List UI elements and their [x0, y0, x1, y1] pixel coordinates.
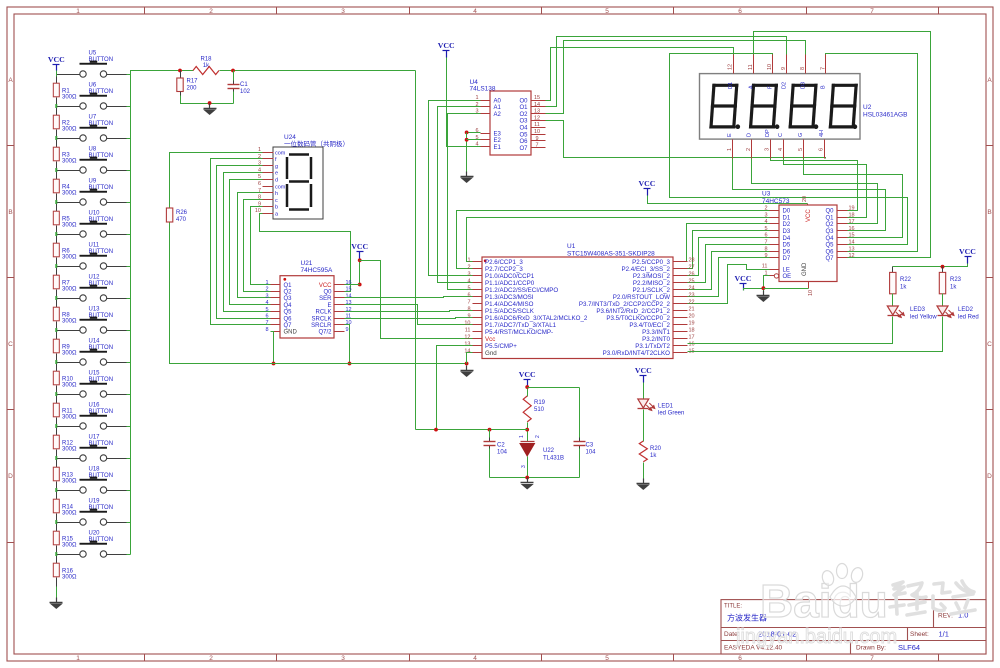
svg-text:4: 4: [764, 219, 767, 225]
button U12: [57, 275, 127, 301]
svg-text:DP: DP: [765, 129, 771, 137]
svg-text:1: 1: [467, 257, 470, 263]
pin 11 U21 SRCLK: [311, 314, 351, 323]
svg-text:19: 19: [849, 206, 855, 212]
svg-text:4H: 4H: [819, 130, 825, 137]
wire U1 pin26 to U3: [688, 238, 770, 276]
button U11: [57, 243, 127, 269]
svg-text:2: 2: [535, 435, 541, 438]
svg-text:19: 19: [689, 320, 695, 326]
button U6: [57, 83, 127, 110]
svg-text:h: h: [275, 191, 278, 197]
svg-text:U7: U7: [89, 115, 97, 121]
pin 20 U1 P3.5: [606, 313, 694, 322]
svg-text:Q3: Q3: [284, 296, 293, 302]
svg-text:Q5: Q5: [284, 310, 293, 316]
button U20: [57, 531, 127, 558]
resistor R11 300: [53, 395, 59, 427]
svg-text:104: 104: [497, 450, 508, 456]
ground main rail: [460, 366, 473, 378]
resistor R18 1k zigzag: [193, 57, 219, 75]
pin 6 U24 com: [258, 181, 286, 190]
button U14: [57, 339, 127, 365]
svg-text:6: 6: [467, 292, 470, 298]
svg-text:4: 4: [778, 148, 784, 151]
svg-text:D5: D5: [783, 243, 791, 249]
power flag VCC U3 OE: [735, 274, 752, 291]
wire U3 GND pin: [764, 288, 809, 290]
label R4: [62, 185, 77, 197]
pin 12 U3 Q7: [825, 253, 854, 262]
svg-text:LED2: LED2: [958, 307, 974, 313]
wire feedback to TL431: [416, 429, 528, 431]
wire VCC to U3 pin20: [648, 196, 808, 204]
wire: [127, 330, 131, 332]
pin 24 U1 P2.1: [633, 285, 695, 294]
svg-text:P5.5/CMP+: P5.5/CMP+: [485, 343, 517, 350]
svg-text:200: 200: [187, 86, 198, 92]
svg-text:D6: D6: [783, 249, 791, 255]
label R10: [62, 377, 77, 389]
label LED2: [958, 307, 979, 321]
resistor R23 1k: [939, 267, 961, 294]
pin 2 U4 A1: [475, 102, 501, 111]
wire U1 pin2 to D0: [457, 211, 770, 269]
svg-text:P3.1/TxD/T2: P3.1/TxD/T2: [635, 343, 670, 350]
svg-text:3: 3: [341, 8, 345, 15]
svg-text:Q2: Q2: [284, 290, 293, 296]
pin 2 U2 D: [746, 133, 752, 159]
svg-text:5: 5: [605, 655, 609, 662]
svg-text:A: A: [748, 85, 754, 89]
svg-text:3: 3: [521, 465, 527, 468]
svg-text:U10: U10: [89, 211, 101, 217]
svg-text:VCC: VCC: [519, 370, 536, 379]
svg-text:3: 3: [467, 271, 470, 277]
svg-text:P1.3/ADC3/MOSI: P1.3/ADC3/MOSI: [485, 294, 534, 301]
svg-text:4: 4: [467, 278, 470, 284]
pin 11 U2 A: [748, 55, 754, 90]
pin 7 U3 D5: [764, 240, 790, 249]
svg-text:470: 470: [176, 217, 187, 223]
svg-text:Gnd: Gnd: [485, 350, 497, 357]
junction C1 top: [231, 69, 235, 73]
wire U1 pin27 to U3: [688, 231, 770, 269]
svg-text:U19: U19: [89, 499, 101, 505]
svg-text:14: 14: [464, 348, 470, 354]
pin 6 U4 E3: [475, 128, 501, 137]
button U7: [57, 115, 127, 142]
pin 15 U21 Q0: [323, 287, 351, 296]
wire U21 GND to rail: [271, 332, 274, 364]
svg-text:9: 9: [781, 67, 787, 70]
svg-text:E: E: [327, 303, 331, 309]
svg-text:300Ω: 300Ω: [62, 351, 77, 357]
button U9: [57, 179, 127, 206]
wire SER to U1 P1.3: [345, 297, 473, 298]
svg-text:1: 1: [727, 148, 733, 151]
svg-text:P1.7/ADC7/TxD_3/XTAL1: P1.7/ADC7/TxD_3/XTAL1: [485, 322, 557, 329]
pin 2 U1 P2.7: [467, 264, 523, 273]
button U13: [57, 307, 127, 333]
resistor R6 300: [53, 235, 59, 267]
svg-text:25: 25: [689, 278, 695, 284]
svg-text:Q7/2: Q7/2: [318, 330, 332, 336]
pin 6 U3 D4: [764, 233, 790, 242]
svg-text:6: 6: [819, 148, 825, 151]
svg-text:B: B: [987, 209, 991, 216]
wire: [127, 234, 131, 236]
junction C2: [488, 428, 492, 432]
svg-text:E2: E2: [494, 138, 502, 144]
svg-text:GND: GND: [802, 262, 808, 276]
svg-text:E1: E1: [494, 145, 502, 151]
svg-text:Q1: Q1: [284, 283, 293, 289]
pin 3 U1 P1.0: [467, 271, 534, 280]
svg-text:D2: D2: [781, 82, 787, 89]
svg-text:13: 13: [346, 300, 352, 306]
svg-text:R23: R23: [950, 277, 962, 283]
svg-text:e: e: [275, 171, 278, 177]
pin 7 U4 O7: [519, 143, 545, 152]
wire: [127, 554, 131, 556]
pin 10 U4 O5: [519, 129, 545, 138]
wire enable chain to gnd: [466, 133, 468, 173]
pin 15 U3 Q4: [825, 233, 854, 242]
pin 4 U4 E1: [475, 142, 501, 151]
svg-text:2: 2: [265, 287, 268, 293]
pin 3 U3 D1: [764, 212, 790, 221]
svg-text:300Ω: 300Ω: [62, 319, 77, 325]
wire RCLK to U1 P1.5: [345, 311, 473, 312]
svg-text:A1: A1: [494, 105, 502, 111]
svg-text:6: 6: [738, 655, 742, 662]
svg-text:G: G: [798, 133, 804, 137]
svg-text:VCC: VCC: [735, 274, 752, 283]
wire U1 pin22 to LE: [688, 265, 770, 304]
wire VCC OE: [744, 289, 764, 291]
svg-text:12: 12: [849, 253, 855, 259]
wire U22 to rail: [527, 457, 529, 478]
svg-text:4: 4: [265, 300, 268, 306]
svg-text:28: 28: [689, 257, 695, 263]
wire E to U1 P1.7: [345, 305, 473, 325]
svg-text:U17: U17: [89, 435, 101, 441]
svg-text:D4: D4: [783, 236, 791, 242]
svg-text:P2.2/MISO_2: P2.2/MISO_2: [633, 280, 671, 287]
button U18: [57, 467, 127, 493]
svg-text:8: 8: [800, 67, 806, 70]
svg-text:5: 5: [605, 8, 609, 15]
svg-text:U8: U8: [89, 147, 97, 153]
svg-text:B: B: [8, 209, 12, 216]
power flag VCC LED1: [635, 366, 652, 383]
svg-text:18: 18: [849, 212, 855, 218]
latch U3 74HC573: [762, 191, 837, 282]
power flag VCC U21: [351, 242, 368, 259]
svg-text:U13: U13: [89, 307, 101, 313]
svg-text:13: 13: [534, 109, 540, 115]
svg-text:300Ω: 300Ω: [62, 95, 77, 101]
svg-text:8: 8: [265, 327, 268, 333]
pin 3 U2 DP: [765, 129, 771, 158]
svg-text:8: 8: [467, 306, 470, 312]
svg-text:C: C: [987, 341, 992, 348]
pin 4 U21 Q4: [265, 300, 292, 309]
svg-text:Q0: Q0: [825, 209, 834, 215]
pin 25 U1 P2.2: [633, 278, 695, 287]
pin 1 U4 A0: [475, 95, 501, 104]
wire R16 to ground: [56, 587, 58, 598]
pin 18 U1 P3.3: [642, 327, 694, 336]
svg-text:VCC: VCC: [351, 242, 368, 251]
svg-text:VCC: VCC: [438, 41, 455, 50]
svg-text:15: 15: [346, 287, 352, 293]
label R1: [62, 89, 77, 101]
svg-text:U5: U5: [89, 51, 97, 57]
ground R17/C1: [203, 104, 216, 116]
button U15: [57, 371, 127, 397]
wire LED1 to R20: [643, 410, 645, 442]
svg-text:300Ω: 300Ω: [62, 511, 77, 517]
wire: [127, 490, 131, 492]
pin 8 U2 D3: [800, 55, 806, 90]
label C2: [497, 443, 508, 456]
pin 5 U24 d: [258, 174, 278, 183]
svg-text:O5: O5: [519, 132, 528, 138]
svg-text:R19: R19: [534, 400, 546, 406]
pin 4 U1 P1.1: [467, 278, 534, 287]
svg-text:U18: U18: [89, 467, 101, 473]
label R16: [62, 569, 77, 581]
svg-text:1k: 1k: [650, 453, 657, 459]
svg-text:jingyan.baidu.com: jingyan.baidu.com: [735, 626, 897, 648]
Baidu watermark: [735, 564, 975, 649]
resistor R8 300: [53, 299, 59, 331]
svg-text:15: 15: [534, 95, 540, 101]
svg-text:D3: D3: [800, 82, 806, 89]
junction C3 branch: [525, 385, 529, 389]
svg-text:P2.5/CCP0_3: P2.5/CCP0_3: [632, 259, 670, 266]
svg-text:B: B: [821, 85, 827, 89]
wire: [127, 458, 131, 460]
svg-text:7: 7: [265, 320, 268, 326]
svg-text:R22: R22: [900, 277, 912, 283]
svg-text:d: d: [275, 178, 278, 184]
svg-text:GND: GND: [284, 330, 298, 336]
shunt reference U22 TL431B: [519, 435, 564, 468]
pin 1 U24 com: [258, 147, 286, 156]
wire: [127, 202, 131, 204]
svg-text:g: g: [275, 164, 278, 170]
svg-text:C: C: [778, 133, 784, 137]
resistor R4 300: [53, 171, 59, 203]
wire U1 pin23 to U3: [688, 258, 770, 297]
svg-text:P1.2/ADC2/SS/ECI/CMPO: P1.2/ADC2/SS/ECI/CMPO: [485, 287, 558, 294]
pin 13 U4 O2: [519, 109, 545, 118]
svg-text:E3: E3: [494, 131, 502, 137]
wire segment C: [784, 159, 867, 218]
wire keypad feedback vertical: [415, 71, 417, 430]
wire R22 to LED3: [892, 294, 894, 307]
svg-text:1: 1: [76, 655, 80, 662]
svg-text:led Yellow: led Yellow: [910, 315, 937, 321]
svg-text:P1.5/ADC5/SCLK: P1.5/ADC5/SCLK: [485, 308, 535, 315]
button U10: [57, 211, 127, 238]
wire: [127, 74, 131, 76]
wire U1 P5.5 to feedback: [437, 346, 473, 430]
svg-text:16: 16: [689, 341, 695, 347]
pin 1 U2 E: [727, 133, 733, 159]
svg-text:Q7: Q7: [284, 323, 293, 329]
svg-text:14: 14: [849, 240, 855, 246]
ground U3: [757, 291, 770, 303]
svg-text:VCC: VCC: [319, 283, 332, 289]
junction gnd rail: [272, 362, 276, 366]
wire segment B: [826, 54, 918, 252]
wire VCC to R22 R23: [893, 264, 968, 267]
wire segment DP: [771, 159, 858, 211]
resistor R7 300: [53, 267, 59, 299]
junction ground tap: [208, 101, 212, 105]
svg-text:102: 102: [240, 89, 251, 95]
wire U24 pin3 to U21: [217, 166, 271, 319]
pin 9 U2 D2: [781, 55, 787, 90]
pin 10 U3 GND: [802, 262, 814, 296]
svg-text:U14: U14: [89, 339, 101, 345]
wire U21 pin16: [345, 284, 360, 286]
resistor R1 300: [53, 75, 59, 107]
svg-text:12: 12: [534, 115, 540, 121]
svg-text:D: D: [8, 473, 13, 480]
resistor R5 300: [53, 203, 59, 235]
wire: [127, 266, 131, 268]
power flag VCC LEDs: [959, 247, 976, 264]
label R12: [62, 441, 77, 453]
wire VCC to U21 pin16: [359, 259, 361, 285]
svg-text:18: 18: [689, 327, 695, 333]
svg-text:300Ω: 300Ω: [62, 479, 77, 485]
resistor R16 300: [53, 555, 59, 587]
wire E3: [467, 132, 481, 134]
pin 2 U3 D0: [764, 206, 790, 215]
pin 17 U1 P3.2: [642, 334, 694, 343]
svg-text:VCC: VCC: [635, 366, 652, 375]
label C1: [240, 82, 251, 95]
svg-text:Q2: Q2: [825, 222, 834, 228]
label R5: [62, 217, 77, 229]
pin 11 U3 LE: [762, 264, 790, 274]
pin 8 U1 P1.5: [467, 306, 534, 315]
svg-text:11: 11: [465, 327, 471, 333]
wire R20 to ground: [643, 463, 645, 479]
svg-text:com: com: [275, 150, 286, 156]
pin 5 U4 E2: [475, 135, 501, 144]
svg-text:3: 3: [341, 655, 345, 662]
pin 7 U21 Q7: [265, 320, 292, 329]
wire: [127, 106, 131, 108]
ground U4 enable: [460, 172, 473, 184]
pin 1 U3 OE: [764, 270, 791, 280]
svg-text:P2.7/CCP2_3: P2.7/CCP2_3: [485, 266, 523, 273]
svg-text:LED1: LED1: [658, 404, 674, 410]
pin 28 U1 P2.5: [632, 257, 694, 266]
svg-text:U9: U9: [89, 179, 97, 185]
label R9: [62, 345, 77, 357]
svg-text:U6: U6: [89, 83, 97, 89]
label LED3: [910, 307, 937, 321]
wire: [127, 170, 131, 172]
pin 21 U1 P3.6: [596, 306, 694, 315]
wire O1 to D2: [546, 37, 787, 107]
svg-text:U22: U22: [543, 448, 555, 454]
svg-text:104: 104: [586, 450, 597, 456]
button U19: [57, 499, 127, 526]
svg-text:A2: A2: [494, 112, 502, 118]
svg-text:12: 12: [728, 64, 734, 70]
svg-text:R17: R17: [187, 79, 199, 85]
power flag VCC TL431: [519, 370, 536, 387]
pin 26 U1 P2.3: [633, 271, 695, 280]
svg-text:300Ω: 300Ω: [62, 191, 77, 197]
svg-text:U16: U16: [89, 403, 101, 409]
svg-text:VCC: VCC: [48, 55, 65, 64]
junction R17 top: [178, 69, 182, 73]
pin 13 U21 E: [327, 300, 351, 309]
junction E3: [465, 131, 469, 135]
label R7: [62, 281, 77, 293]
pin 5 U3 D3: [764, 226, 790, 235]
pin 14 U21 SER: [319, 293, 351, 302]
wire: [127, 426, 131, 428]
svg-text:6: 6: [738, 8, 742, 15]
junction P5.5: [434, 428, 438, 432]
svg-text:13: 13: [849, 246, 855, 252]
svg-text:U20: U20: [89, 531, 101, 537]
svg-text:3: 3: [765, 148, 771, 151]
svg-text:P3.0/RxD/INT4/T2CLKO: P3.0/RxD/INT4/T2CLKO: [603, 350, 671, 357]
pin 9 U3 D7: [764, 253, 790, 262]
label R2: [62, 121, 77, 133]
svg-text:510: 510: [534, 407, 545, 413]
display U2 HSL03461AGB: [700, 74, 908, 140]
pin 16 U1 P3.1: [635, 341, 694, 350]
pin 1 U21 Q1: [265, 280, 292, 289]
svg-text:U11: U11: [89, 243, 100, 249]
svg-text:E: E: [727, 133, 733, 137]
svg-text:7: 7: [535, 143, 538, 149]
svg-text:16: 16: [849, 226, 855, 232]
wire VCC to U1 Vcc pin: [360, 261, 473, 339]
pin 2 U21 Q2: [265, 287, 292, 296]
label C3: [586, 443, 597, 456]
svg-text:Sheet:: Sheet:: [910, 631, 929, 638]
svg-text:D0: D0: [783, 209, 791, 215]
pin 3 U21 Q3: [265, 293, 292, 302]
svg-text:c: c: [275, 198, 278, 204]
svg-text:7: 7: [467, 299, 470, 305]
svg-text:SRCLK: SRCLK: [311, 316, 331, 322]
svg-text:R18: R18: [200, 57, 212, 63]
svg-text:10: 10: [346, 320, 352, 326]
svg-text:1k: 1k: [900, 285, 907, 291]
svg-text:P1.6/ADC6/RxD_3/XTAL2/MCLKO_2: P1.6/ADC6/RxD_3/XTAL2/MCLKO_2: [485, 315, 588, 322]
svg-text:13: 13: [464, 341, 470, 347]
label R11: [62, 409, 77, 421]
pin 3 U24 g: [258, 161, 278, 170]
svg-text:O2: O2: [519, 112, 528, 118]
svg-text:9: 9: [346, 327, 349, 333]
